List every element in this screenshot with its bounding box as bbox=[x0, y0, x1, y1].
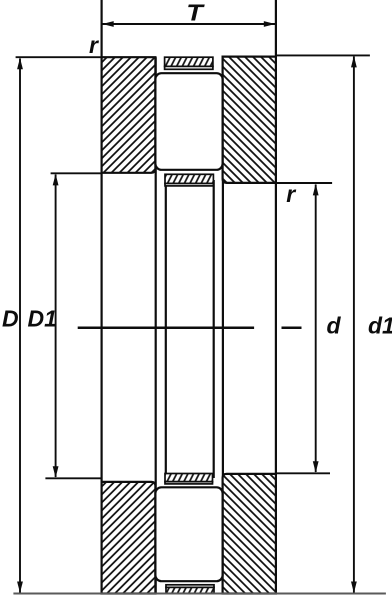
T arrow left bbox=[102, 21, 114, 27]
roller top bbox=[155, 73, 222, 170]
cage rail top inner white band bbox=[165, 184, 213, 186]
extension line right full height (housing washer back face) bbox=[275, 0, 277, 594]
washer bore edge line right bbox=[222, 57, 224, 594]
D arrow down bbox=[17, 582, 23, 594]
dimension d line bbox=[315, 185, 317, 473]
D arrow up bbox=[17, 58, 23, 70]
cage wall line right bbox=[213, 180, 215, 478]
cage rail bottom inner white band bbox=[165, 482, 213, 484]
svg-text:d: d bbox=[327, 313, 342, 339]
top washer left cross-section bbox=[102, 57, 156, 173]
d arrow down bbox=[313, 461, 319, 473]
center axis dash bbox=[282, 327, 302, 330]
svg-text:d1: d1 bbox=[368, 313, 392, 339]
washer bore edge line left bbox=[155, 57, 157, 593]
d arrow up bbox=[313, 184, 319, 196]
d bottom extension line bbox=[276, 472, 330, 474]
T arrow right bbox=[264, 21, 276, 27]
dimension T line with arrows bbox=[102, 23, 276, 25]
cage rail bottom inner (hatched) bbox=[165, 474, 213, 482]
D1 arrow down bbox=[53, 466, 59, 478]
dimension D1 line bbox=[55, 175, 57, 478]
svg-text:r: r bbox=[286, 181, 296, 207]
bottom extension line (D / d1) bbox=[13, 593, 386, 595]
svg-text:D1: D1 bbox=[28, 305, 57, 331]
roller bottom bbox=[155, 487, 222, 581]
cage rail top outer (hatched) bbox=[165, 57, 213, 66]
bottom washer left cross-section bbox=[102, 482, 156, 594]
cage rail bottom outer (hatched) bbox=[166, 587, 214, 593]
cage wall line left bbox=[165, 180, 167, 478]
bottom washer right cross-section bbox=[223, 474, 276, 594]
dimension d1 line bbox=[353, 57, 355, 593]
svg-text:r: r bbox=[89, 32, 99, 58]
d1 top extension line bbox=[276, 54, 370, 56]
svg-text:D: D bbox=[2, 305, 19, 331]
cage rail top outer white band bbox=[165, 66, 213, 69]
d1 arrow up bbox=[351, 56, 357, 68]
svg-text:T: T bbox=[186, 0, 205, 26]
cage rail top inner (hatched) bbox=[165, 174, 213, 183]
dimension D line bbox=[19, 59, 21, 593]
top washer right cross-section bbox=[223, 57, 276, 183]
extension line left full height (shaft washer back face) bbox=[100, 0, 102, 594]
center axis line bbox=[78, 327, 254, 330]
D1 top extension line bbox=[51, 172, 102, 174]
D top extension line bbox=[16, 56, 102, 58]
D1 arrow up bbox=[53, 174, 59, 186]
cage rail bottom outer white band bbox=[166, 585, 214, 588]
d1 arrow down bbox=[351, 582, 357, 594]
D1 bottom extension line bbox=[45, 477, 101, 479]
d top extension line bbox=[276, 182, 332, 184]
